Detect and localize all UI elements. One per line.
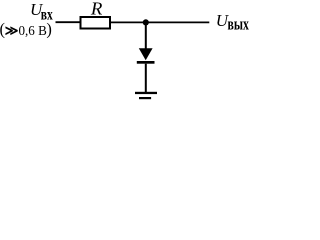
wire resistor to output: [111, 21, 209, 23]
node junction dot: [143, 19, 149, 25]
svg-text:вых: вых: [228, 15, 250, 34]
node Uvx input label: [30, 0, 53, 24]
wire junction to diode anode: [145, 22, 147, 48]
node Uvyx output label: [216, 11, 249, 34]
svg-text:R: R: [90, 0, 103, 19]
svg-text:≫0,6 В: ≫0,6 В: [5, 23, 47, 38]
resistor R: [81, 0, 111, 28]
wire diode cathode to ground: [145, 64, 147, 93]
diode VD1: [137, 48, 155, 63]
wire input to resistor: [56, 21, 82, 23]
svg-text:): ): [46, 19, 52, 38]
ground: [135, 92, 157, 99]
input condition label (>>0,6 V): [0, 19, 52, 38]
